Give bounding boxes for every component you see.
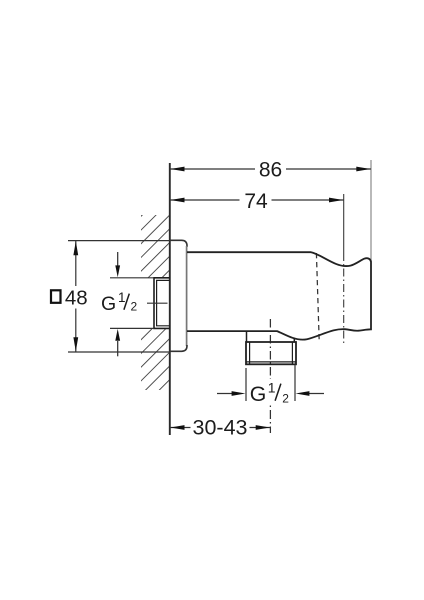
- outlet stub right edge: [293, 338, 295, 342]
- hidden edge dashed line: [316, 253, 319, 341]
- dim 86 line right part: [286, 168, 371, 170]
- dim 48 arrow top: [73, 241, 78, 255]
- outlet nut inner chamfer bottom: [246, 361, 296, 363]
- svg-text:2: 2: [282, 391, 289, 405]
- wall hatch lower: [141, 329, 169, 390]
- flange outline: [170, 240, 187, 247]
- outlet centerline lower (dash-dot): [269, 406, 271, 434]
- outlet nut outer: [246, 342, 296, 364]
- dim 30-43 line left part: [170, 427, 191, 429]
- svg-text:G: G: [250, 382, 267, 406]
- socket dim arrow up: [117, 341, 119, 356]
- extension line 86 right: [370, 160, 372, 262]
- dim 74 arrow right: [329, 198, 343, 203]
- socket dim arrow down: [117, 252, 119, 266]
- dim 74 arrow left: [170, 198, 184, 203]
- dim 86 line left part: [170, 168, 255, 170]
- outlet dim arrow right: [309, 393, 324, 395]
- socket dim extension bottom: [110, 327, 154, 329]
- outlet dim extension right: [294, 365, 296, 402]
- outlet dim extension left: [245, 368, 247, 401]
- svg-text:48: 48: [65, 287, 88, 310]
- wall hatch upper: [141, 215, 169, 278]
- svg-text:2: 2: [130, 300, 137, 314]
- outlet stub left edge: [246, 331, 248, 342]
- socket centerline: [147, 302, 168, 304]
- svg-text:30-43: 30-43: [193, 416, 248, 440]
- outlet nut inner chamfer right: [291, 342, 293, 364]
- dim 48 line upper part: [75, 241, 77, 286]
- body and holder top/right/bottom outline: [187, 252, 371, 339]
- dim 48 arrow bottom: [73, 337, 78, 351]
- wall surface line: [169, 163, 171, 435]
- dim 74 line left part: [170, 199, 240, 201]
- extension line 74 right: [343, 194, 345, 253]
- svg-text:1: 1: [268, 380, 276, 396]
- outlet nut inner chamfer left: [249, 342, 251, 364]
- outlet centerline upper (dash-dot): [269, 319, 271, 379]
- svg-text:1: 1: [118, 290, 126, 305]
- extension line 48 bottom: [68, 351, 170, 353]
- svg-text:86: 86: [259, 159, 282, 182]
- wall socket outer edges: [154, 278, 170, 329]
- square symbol: [51, 290, 61, 303]
- dim 48 line lower part: [75, 309, 77, 353]
- extension line 48 top: [68, 240, 170, 242]
- dim 30-43 line right part: [250, 427, 271, 429]
- socket dim extension top: [110, 277, 154, 279]
- outlet dim arrow left: [217, 393, 232, 395]
- dim 74 line right part: [272, 199, 344, 201]
- dim 30-43 arrow right: [256, 425, 270, 430]
- dim 86 arrow right: [356, 167, 370, 172]
- dim 86 arrow left: [170, 167, 184, 172]
- svg-text:G: G: [101, 293, 116, 315]
- dim 30-43 arrow left: [170, 425, 184, 430]
- wall socket inner thread lines: [157, 280, 170, 325]
- svg-text:74: 74: [244, 190, 268, 213]
- centerline holder groove (dash-dot): [343, 253, 345, 345]
